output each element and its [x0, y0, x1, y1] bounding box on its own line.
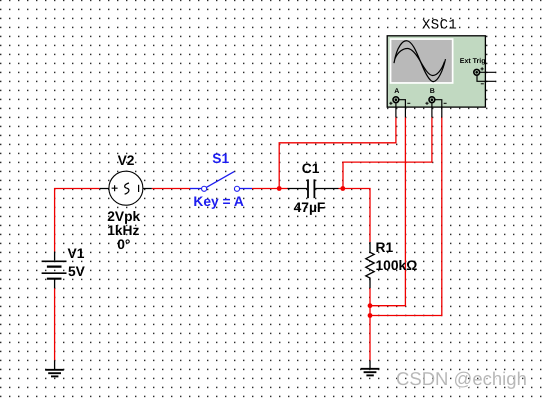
svg-text:2Vpk: 2Vpk: [107, 209, 140, 224]
scope sine trace outer: [394, 41, 446, 82]
wire switch to C1 node: [252, 188, 288, 190]
Ext Trig connector: [474, 69, 480, 75]
svg-text:B: B: [430, 88, 435, 95]
svg-text:100kΩ: 100kΩ: [376, 258, 418, 273]
resistor R1: [366, 242, 374, 288]
svg-text:1kHz: 1kHz: [107, 223, 139, 238]
svg-text:47µF: 47µF: [294, 200, 326, 215]
ground right: [361, 360, 380, 375]
capacitor C1: [288, 179, 339, 198]
svg-text:5V: 5V: [68, 264, 86, 279]
oscilloscope XSC1 box: [387, 36, 496, 118]
svg-text:S1: S1: [212, 151, 229, 166]
wire V2-right to switch: [152, 188, 190, 190]
wire node B to R1 top: [339, 189, 371, 243]
wire battery bottom to ground: [54, 288, 56, 360]
battery V1: [42, 252, 67, 289]
svg-text:0°: 0°: [117, 237, 130, 252]
switch S1: [190, 172, 252, 192]
wire R1 bottom to ground: [369, 288, 371, 360]
svg-text:A: A: [394, 88, 399, 95]
connector B: [429, 97, 435, 103]
junction node B (C1 right): [340, 186, 345, 191]
svg-text:Key = A: Key = A: [193, 194, 244, 209]
scope screen: [390, 38, 454, 84]
AC source V2: [100, 171, 152, 205]
junction node A (C1 left): [277, 186, 282, 191]
junction R1-A-: [368, 303, 373, 308]
svg-text:R1: R1: [376, 240, 394, 255]
wire R1 node to scope A-: [370, 117, 405, 305]
svg-text:V1: V1: [68, 246, 85, 261]
ground left: [45, 360, 64, 376]
wire V2-left to battery top: [55, 189, 100, 252]
wire R1 node to scope B-: [370, 117, 442, 315]
svg-text:Ext Trig: Ext Trig: [460, 57, 486, 65]
svg-text:CSDN @echigh: CSDN @echigh: [396, 368, 527, 389]
connector A: [393, 97, 399, 103]
svg-text:V2: V2: [118, 153, 135, 168]
svg-text:C1: C1: [302, 161, 320, 176]
svg-text:XSC1: XSC1: [422, 18, 457, 34]
wire scope A+ down to node A: [279, 117, 396, 188]
scope sine trace inner: [395, 48, 445, 75]
junction R1-B-: [368, 313, 373, 318]
wire scope B+ down to node B: [343, 117, 432, 188]
